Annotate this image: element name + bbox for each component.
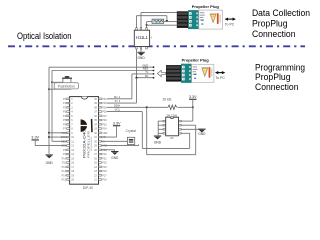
svg-text:P18: P18 (102, 170, 107, 173)
svg-text:P20: P20 (102, 162, 107, 165)
svg-text:VDD: VDD (61, 145, 66, 148)
svg-text:GND: GND (138, 56, 146, 60)
svg-text:P21: P21 (102, 157, 107, 160)
svg-text:Data Collection: Data Collection (252, 8, 310, 19)
svg-text:GND: GND (111, 156, 119, 160)
svg-text:GND: GND (46, 161, 54, 165)
svg-text:XO: XO (102, 136, 106, 139)
svg-text:P11: P11 (62, 162, 67, 165)
svg-text:Propeller Plug: Propeller Plug (182, 57, 210, 62)
svg-text:DP: DP (170, 137, 174, 140)
svg-text:Propeller Plug: Propeller Plug (192, 4, 220, 9)
svg-text:Pushbutton: Pushbutton (58, 84, 75, 88)
svg-text:10 kΩ: 10 kΩ (162, 98, 171, 102)
svg-text:P31: P31 (102, 98, 107, 101)
svg-text:XI: XI (102, 140, 105, 143)
svg-text:BOE: BOE (61, 136, 67, 139)
svg-text:P25: P25 (102, 123, 107, 126)
svg-text:VSS: VSS (61, 132, 66, 135)
svg-text:Connection: Connection (252, 29, 296, 40)
svg-text:RES: RES (143, 67, 149, 71)
svg-text:GND: GND (154, 140, 162, 144)
svg-text:PropPlug: PropPlug (252, 19, 288, 30)
svg-text:RES: RES (61, 140, 66, 143)
svg-text:To PC: To PC (225, 23, 235, 27)
svg-text:P22: P22 (102, 153, 107, 156)
svg-text:P15: P15 (62, 179, 67, 182)
svg-text:GND: GND (142, 63, 148, 67)
svg-text:P26: P26 (102, 119, 107, 122)
svg-text:P28: P28 (102, 111, 107, 114)
svg-text:P19: P19 (102, 166, 107, 169)
svg-text:GND: GND (198, 132, 206, 136)
svg-text:P14: P14 (62, 174, 67, 177)
svg-text:To PC: To PC (215, 76, 225, 80)
svg-text:P24: P24 (102, 128, 107, 131)
svg-text:Connection: Connection (255, 82, 299, 93)
svg-text:3.3V: 3.3V (113, 121, 121, 125)
svg-text:P13: P13 (62, 170, 67, 173)
svg-text:P30: P30 (102, 102, 107, 105)
svg-text:P29: P29 (102, 106, 107, 109)
svg-text:DIP-40: DIP-40 (83, 186, 93, 190)
svg-text:P12: P12 (62, 166, 67, 169)
svg-text:Optical Isolation: Optical Isolation (17, 31, 72, 41)
svg-text:SCL: SCL (115, 108, 121, 112)
svg-text:3.3V: 3.3V (31, 136, 39, 140)
svg-text:P27: P27 (102, 115, 107, 118)
svg-text:VSS: VSS (102, 145, 107, 148)
svg-text:3.3V: 3.3V (189, 95, 197, 99)
svg-text:Crystal: Crystal (126, 129, 137, 133)
svg-text:PROPELLER: PROPELLER (86, 130, 90, 158)
svg-text:H11L1: H11L1 (136, 35, 148, 40)
svg-text:P23: P23 (102, 149, 107, 152)
svg-text:P10: P10 (62, 157, 67, 160)
svg-text:P17: P17 (102, 174, 107, 177)
svg-text:VDD: VDD (102, 132, 107, 135)
svg-text:P16: P16 (102, 179, 107, 182)
